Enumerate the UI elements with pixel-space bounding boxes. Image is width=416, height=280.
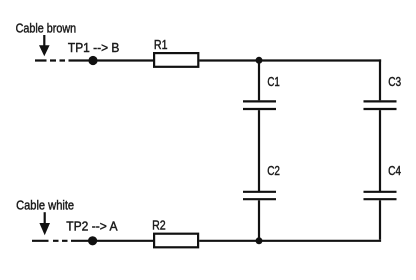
svg-text:C2: C2 xyxy=(267,164,280,179)
wire: C1 to C2 interconnect xyxy=(258,110,260,191)
svg-text:C1: C1 xyxy=(267,76,279,90)
wire: R1 to top junction xyxy=(199,59,259,61)
capacitor C4 xyxy=(364,192,397,199)
svg-text:C3: C3 xyxy=(388,75,401,89)
arrow: cable brown entry xyxy=(39,35,50,56)
wire: C1 top lead xyxy=(258,61,260,101)
node TP1 (B) xyxy=(88,56,97,65)
wire: C4 bottom lead xyxy=(379,200,381,239)
svg-text:R2: R2 xyxy=(152,218,166,233)
svg-text:C4: C4 xyxy=(388,164,401,178)
capacitor C1 xyxy=(243,101,276,109)
resistor R2 xyxy=(154,234,198,248)
wire: C3 to C4 interconnect xyxy=(379,110,381,191)
arrow: cable white entry xyxy=(39,212,50,235)
resistor R1 xyxy=(154,53,198,67)
svg-text:R1: R1 xyxy=(154,37,168,52)
wire: C3 top lead xyxy=(379,59,381,100)
wire: R2 to bottom junction xyxy=(199,240,259,242)
node TP2 (A) xyxy=(88,236,97,245)
svg-text:TP2 --> A: TP2 --> A xyxy=(66,219,118,233)
wire: C2 to bottom junction xyxy=(258,200,260,241)
wire: cable stub to R2 xyxy=(71,240,154,242)
junction: bottom node xyxy=(256,237,263,244)
svg-text:Cable white: Cable white xyxy=(16,198,74,213)
wire: bottom-left cable stub (dashed) xyxy=(32,240,68,242)
svg-text:TP1 --> B: TP1 --> B xyxy=(68,40,119,55)
capacitor C2 xyxy=(243,192,276,199)
svg-text:Cable brown: Cable brown xyxy=(16,20,77,35)
capacitor C3 xyxy=(364,101,397,109)
wire: bottom junction to right corner xyxy=(259,240,381,242)
junction: top node xyxy=(256,57,263,64)
wire: top junction to right corner xyxy=(259,59,381,61)
wire: top-left cable stub (dashed) xyxy=(35,59,65,61)
wire: cable stub to R1 xyxy=(69,59,154,61)
